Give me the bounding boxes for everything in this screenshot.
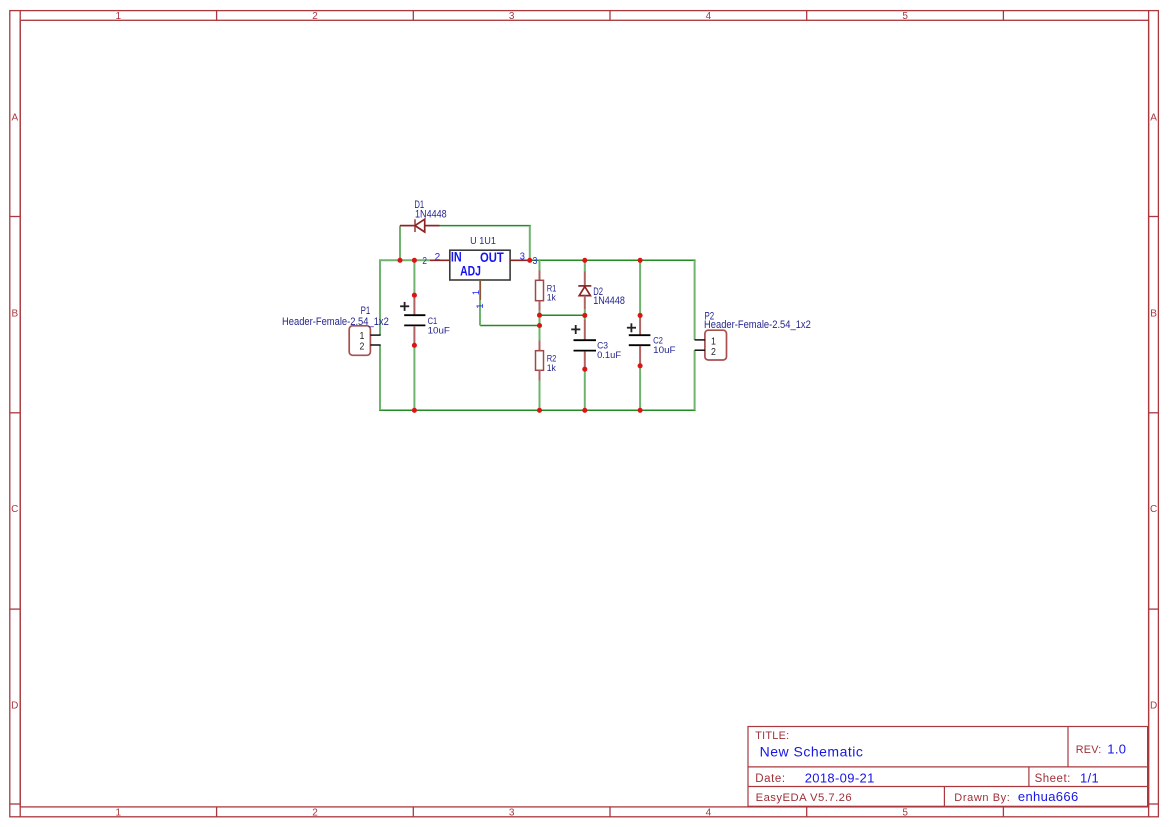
svg-text:B: B: [1150, 308, 1157, 319]
svg-text:4: 4: [706, 807, 712, 818]
capacitor C1: [400, 295, 425, 345]
svg-text:Drawn By:: Drawn By:: [954, 792, 1010, 804]
U1 pin ADJ lead: [479, 280, 481, 300]
frame column numbers bottom: [116, 807, 909, 818]
wire R1-D2 link horizontal: [540, 314, 585, 316]
node C2 branch on output rail: [638, 258, 643, 263]
svg-text:Sheet:: Sheet:: [1035, 773, 1071, 785]
wire output rail horizontal: [530, 259, 695, 261]
svg-text:2018-09-21: 2018-09-21: [805, 770, 875, 785]
svg-text:1k: 1k: [547, 293, 556, 304]
frame column numbers top: [116, 11, 909, 22]
wire right rail vertical top: [694, 260, 696, 340]
node C1 branch on input rail: [412, 258, 417, 263]
svg-text:1: 1: [116, 11, 122, 22]
resistor R2: [536, 341, 544, 381]
wire D2-C3 stub vertical: [584, 315, 586, 319]
wire left rail vertical top: [379, 260, 381, 335]
wire R1-R2 mid vertical: [539, 311, 541, 341]
node D2 branch on output rail: [582, 258, 587, 263]
svg-text:5: 5: [902, 11, 908, 22]
node OUT junction: [527, 258, 532, 263]
svg-text:1N4448: 1N4448: [593, 295, 625, 307]
node R1 bottom: [537, 313, 542, 318]
svg-text:IN: IN: [451, 250, 462, 265]
wire C1 bottom branch vertical: [413, 345, 415, 410]
capacitor C3: [571, 319, 596, 369]
wire right rail vertical bottom: [694, 350, 696, 410]
svg-text:EasyEDA V5.7.26: EasyEDA V5.7.26: [756, 792, 853, 804]
svg-text:Header-Female-2.54_1x2: Header-Female-2.54_1x2: [282, 316, 389, 328]
wire input rail horizontal: [379, 259, 430, 261]
svg-text:10uF: 10uF: [653, 345, 676, 356]
svg-text:C: C: [11, 504, 18, 515]
wire ADJ horizontal: [480, 325, 540, 327]
wire D1 right stub vertical: [529, 226, 531, 261]
svg-text:10uF: 10uF: [428, 325, 450, 336]
svg-text:enhua666: enhua666: [1018, 789, 1079, 804]
svg-text:Header-Female-2.54_1x2: Header-Female-2.54_1x2: [704, 319, 811, 331]
svg-text:4: 4: [706, 11, 712, 22]
svg-text:A: A: [1150, 112, 1157, 123]
op-amp U1 regulator body: [450, 250, 510, 280]
svg-text:1.0: 1.0: [1107, 741, 1126, 756]
U1 pin IN lead: [430, 259, 450, 261]
wire C2 top branch vertical: [639, 260, 641, 315]
wire D1 left stub vertical: [399, 226, 401, 261]
svg-text:3: 3: [509, 11, 515, 22]
frame row letters left: [11, 112, 18, 711]
svg-text:OUT: OUT: [480, 250, 504, 265]
node ADJ junction: [537, 323, 542, 328]
diode D1: [400, 219, 440, 232]
svg-text:U 1U1: U 1U1: [470, 236, 496, 247]
wire left rail vertical bottom: [379, 345, 381, 410]
wire R1 top stub vertical: [539, 260, 541, 270]
wire C2 bottom branch vertical: [639, 366, 641, 411]
node bottom rail C3: [582, 408, 587, 413]
node D2 C3 junction: [582, 313, 587, 318]
U1 pin OUT lead: [510, 259, 530, 261]
node D1 branch on input rail: [397, 258, 402, 263]
svg-text:1N4448: 1N4448: [415, 209, 447, 221]
wire D1 top horizontal: [440, 225, 531, 227]
svg-text:2: 2: [312, 807, 318, 818]
node C2 bottom: [638, 363, 643, 368]
svg-text:2: 2: [422, 255, 427, 267]
svg-text:2: 2: [435, 252, 441, 263]
svg-text:B: B: [11, 308, 18, 319]
connector P1: [349, 326, 380, 356]
wire ADJ vertical: [479, 300, 481, 325]
svg-text:1: 1: [471, 290, 481, 295]
svg-text:Date:: Date:: [755, 773, 786, 785]
connector P2: [695, 330, 727, 360]
svg-text:D: D: [11, 700, 18, 711]
svg-text:0.1uF: 0.1uF: [597, 350, 621, 361]
wire C3 bottom vertical: [584, 369, 586, 410]
wire D2 top stub vertical: [584, 260, 586, 272]
node C2 top: [638, 313, 643, 318]
node bottom rail C1: [412, 408, 417, 413]
svg-text:D: D: [1150, 700, 1157, 711]
node C1 top: [412, 293, 417, 298]
svg-text:3: 3: [533, 255, 538, 267]
wire bottom rail horizontal: [379, 409, 696, 411]
title block: [748, 727, 1148, 807]
diode D2: [578, 272, 591, 310]
svg-text:1/1: 1/1: [1080, 770, 1099, 785]
wire C1 top branch vertical: [413, 260, 415, 295]
wire D2 bottom green stub: [584, 309, 586, 315]
svg-text:ADJ: ADJ: [460, 263, 481, 278]
svg-text:1: 1: [116, 807, 122, 818]
resistor R1: [536, 271, 544, 311]
frame row letters right: [1150, 112, 1157, 711]
svg-text:C: C: [1150, 504, 1157, 515]
junction node dots: [397, 258, 642, 413]
svg-text:New Schematic: New Schematic: [760, 743, 864, 759]
title block texts: [755, 730, 1101, 804]
svg-text:3: 3: [509, 807, 515, 818]
svg-text:3: 3: [520, 252, 526, 263]
svg-text:A: A: [11, 112, 18, 123]
svg-text:1: 1: [475, 303, 486, 308]
svg-text:TITLE:: TITLE:: [755, 730, 789, 742]
svg-text:2: 2: [312, 11, 318, 22]
capacitor C2: [627, 315, 651, 365]
node bottom rail C2: [638, 408, 643, 413]
svg-text:2: 2: [711, 346, 716, 358]
node C1 bottom: [412, 343, 417, 348]
node C3 bottom: [582, 367, 587, 372]
svg-text:5: 5: [902, 807, 908, 818]
svg-text:2: 2: [360, 341, 365, 353]
svg-text:1k: 1k: [547, 363, 556, 374]
node bottom rail R2: [537, 408, 542, 413]
wire R2 bottom vertical: [539, 381, 541, 411]
svg-text:REV:: REV:: [1076, 744, 1102, 756]
